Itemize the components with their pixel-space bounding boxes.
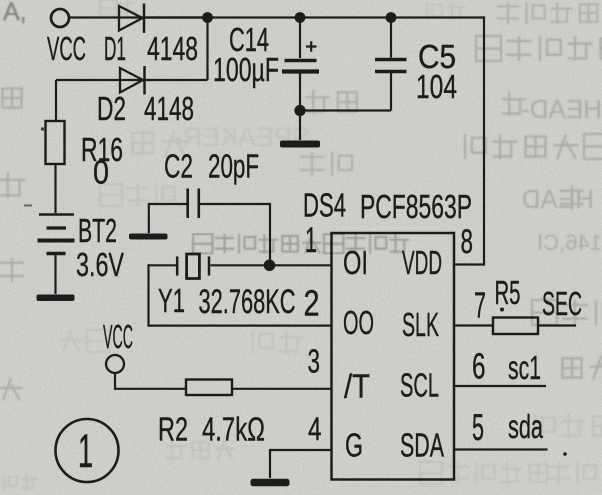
svg-text:SEC: SEC: [542, 285, 582, 322]
svg-text:6: 6: [472, 346, 486, 387]
IC U1 DS4 PCF8563P body: [332, 233, 455, 480]
node junction C2/pin1: [264, 260, 276, 272]
capacitor C2: [188, 189, 199, 219]
svg-text:0: 0: [93, 154, 109, 191]
svg-text:PCF8563P: PCF8563P: [360, 188, 472, 225]
svg-text:20pF: 20pF: [208, 148, 259, 185]
svg-text:1: 1: [78, 424, 93, 477]
svg-text:OI: OI: [343, 244, 368, 281]
svg-text:HEAD-: HEAD-: [521, 94, 602, 124]
watermark: [193, 234, 409, 254]
ground (C2): [129, 234, 168, 240]
capacitor C14 (electrolytic): [282, 41, 319, 71]
svg-text:4148: 4148: [147, 30, 198, 67]
wire bottom node to C5 bottom: [300, 109, 391, 111]
svg-text:4.7kΩ: 4.7kΩ: [202, 411, 265, 448]
wire VCC to D1: [69, 16, 208, 18]
svg-text:4: 4: [308, 411, 322, 447]
svg-text:5: 5: [472, 407, 484, 448]
wire R2 to pin3 /T: [232, 388, 332, 390]
svg-text:/T: /T: [344, 368, 370, 405]
wire R5 to SEC: [538, 324, 576, 326]
svg-text:sda: sda: [508, 408, 543, 445]
wire C5 to bottom rail: [390, 73, 392, 111]
wire C14 to bottom node: [299, 74, 301, 111]
wire pin6 SCL: [455, 385, 546, 387]
svg-text:D1: D1: [104, 30, 126, 67]
ground (battery): [37, 295, 75, 302]
VCC terminal (R2): [106, 355, 124, 373]
svg-text:3.6V: 3.6V: [76, 246, 124, 283]
wire pin1 OI from crystal: [211, 264, 332, 266]
crystal Y1: [177, 254, 209, 279]
svg-text:Y1: Y1: [158, 282, 185, 319]
svg-text:D2: D2: [97, 90, 126, 127]
wire crystal loop left/bottom to pin2 OO: [149, 264, 332, 325]
svg-text:SCL: SCL: [400, 367, 439, 404]
svg-text:146,CI: 146,CI: [537, 230, 602, 255]
svg-text:G: G: [345, 427, 363, 464]
wire down to D2 cathode: [206, 18, 208, 81]
diode D1: [119, 4, 144, 34]
wire node to C14 node: [208, 16, 301, 18]
svg-text:SLK: SLK: [402, 306, 439, 343]
node junction C14 bottom: [294, 105, 305, 116]
svg-text:R2: R2: [158, 411, 188, 448]
ground (C14): [280, 141, 320, 148]
wire D1 cathode to node: [144, 16, 208, 18]
resistor R2: [186, 380, 232, 396]
svg-text:2: 2: [304, 283, 320, 324]
node junction C14 top: [295, 12, 306, 23]
wire left branch down to R16: [55, 80, 57, 121]
svg-text:VCC: VCC: [103, 318, 133, 355]
svg-text:HEAD: HEAD: [522, 184, 594, 214]
svg-text:3: 3: [308, 343, 321, 380]
svg-text:SDA: SDA: [400, 427, 444, 464]
svg-text:sc1: sc1: [508, 349, 541, 386]
capacitor C5: [375, 60, 407, 72]
wire VDD rail down to pin 8: [455, 16, 484, 264]
svg-text:VCC: VCC: [47, 30, 86, 67]
battery BT2: [38, 215, 75, 254]
wire C2 left to ground: [149, 204, 187, 233]
wire BT2 to ground: [54, 255, 56, 294]
node junction C5 top: [386, 12, 397, 23]
svg-text:32.768KC: 32.768KC: [199, 283, 296, 321]
node junction D1/D2: [202, 12, 213, 23]
wire down to C5: [390, 18, 392, 58]
wire VCC to R2: [115, 373, 186, 389]
svg-text:R5: R5: [495, 274, 521, 311]
wire top rail to right corner: [391, 16, 484, 18]
svg-text:C2: C2: [164, 148, 193, 185]
diode D2: [120, 66, 145, 95]
wire pin4 G to ground: [270, 450, 332, 478]
svg-text:104: 104: [416, 68, 457, 105]
svg-text:DS4: DS4: [303, 187, 346, 224]
wire down to C14: [299, 18, 301, 59]
svg-text:A,: A,: [3, 0, 27, 26]
resistor R5: [493, 318, 538, 335]
wire R16 to BT2: [54, 164, 56, 213]
VCC terminal (top-left): [51, 9, 69, 27]
wire pin5 SDA: [455, 448, 548, 450]
svg-text:1: 1: [305, 221, 317, 260]
ground (pin4): [251, 479, 290, 486]
wire node to ground: [299, 111, 301, 141]
svg-text:BT2: BT2: [78, 212, 117, 249]
resistor R16: [46, 121, 65, 164]
wire D2 anode to left: [56, 79, 208, 81]
circled 1 figure number: [56, 419, 119, 482]
svg-text:4148: 4148: [144, 90, 194, 127]
svg-text:7: 7: [474, 285, 486, 326]
wire node to C5 node: [300, 16, 391, 18]
svg-text:8: 8: [461, 223, 474, 261]
svg-text:OO: OO: [343, 304, 374, 341]
wire C2 right to node: [200, 204, 270, 260]
wire pin7 SLK to R5: [455, 324, 493, 326]
svg-text:100µF: 100µF: [213, 51, 279, 88]
wire crystal left side: [149, 264, 178, 266]
svg-text:VDD: VDD: [402, 244, 442, 281]
